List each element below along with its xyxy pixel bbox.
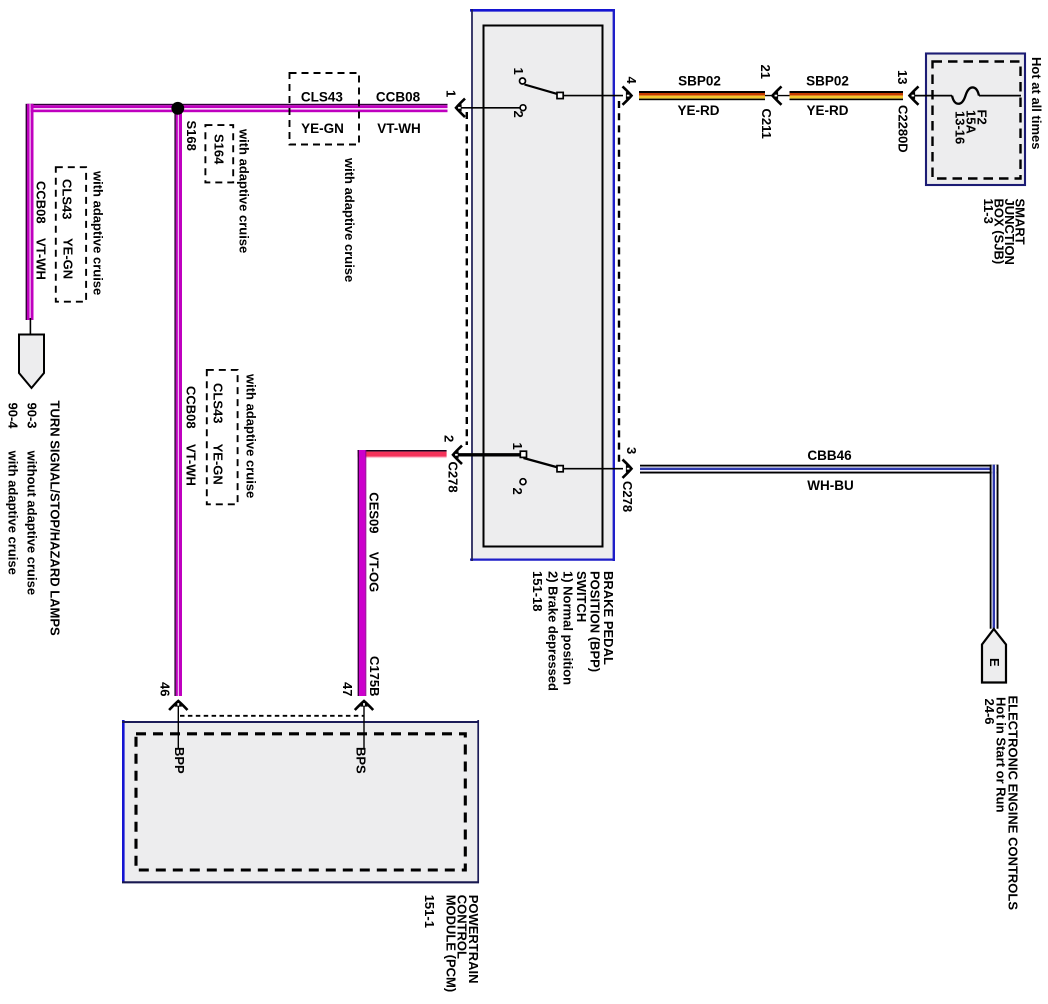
svg-text:BPS: BPS — [354, 747, 369, 774]
svg-text:90-3: 90-3 — [25, 403, 40, 429]
svg-text:WH-BU: WH-BU — [807, 478, 854, 493]
svg-text:CES09: CES09 — [367, 492, 382, 533]
svg-text:CCB08: CCB08 — [184, 386, 199, 429]
svg-text:VT-WH: VT-WH — [34, 238, 49, 280]
svg-text:CLS43: CLS43 — [211, 383, 226, 423]
svg-text:2: 2 — [511, 111, 526, 118]
svg-text:CLS43: CLS43 — [301, 89, 344, 104]
wire CBB46 WH-BU horizontal — [640, 465, 998, 474]
svg-text:SBP02: SBP02 — [678, 74, 721, 89]
wire CBB46 WH-BU vertical — [990, 465, 999, 629]
svg-text:151-1: 151-1 — [422, 895, 437, 928]
wire SBP02 YE-RD segment 1 — [639, 91, 765, 100]
wire from pivot to pin 3 — [564, 468, 624, 470]
svg-text:C2280D: C2280D — [896, 105, 911, 153]
wire CES09 vertical — [358, 450, 367, 696]
svg-text:without adaptive cruise: without adaptive cruise — [25, 450, 40, 595]
svg-text:2: 2 — [510, 488, 525, 495]
svg-text:VT-WH: VT-WH — [184, 444, 199, 486]
svg-text:2: 2 — [442, 435, 457, 442]
SJB inner dashed rectangle — [933, 62, 1021, 179]
wire CES09 horizontal top — [358, 450, 447, 458]
pivot square bottom — [557, 466, 563, 472]
pin 47 arrow — [355, 700, 373, 710]
connector dashed line right — [618, 101, 620, 465]
switch inner black rectangle — [484, 26, 603, 547]
svg-text:CCB08: CCB08 — [34, 181, 49, 224]
svg-text:1) Normal position: 1) Normal position — [561, 571, 576, 685]
svg-text:21: 21 — [758, 65, 773, 79]
wire from pin1 arrow to contact 2 — [459, 107, 520, 109]
brake pedal position switch box outline (blue) — [470, 9, 615, 561]
pin 46 arrow — [169, 700, 187, 710]
svg-text:C278: C278 — [446, 462, 461, 493]
svg-text:with adaptive cruise: with adaptive cruise — [91, 170, 106, 295]
thin wire through C211 gap — [765, 95, 790, 97]
dashed box CLS43/YE-GN left — [56, 167, 86, 302]
connector C211 arrow — [772, 86, 782, 104]
svg-text:47: 47 — [340, 682, 355, 696]
svg-text:E: E — [987, 658, 1002, 667]
svg-text:SBP02: SBP02 — [806, 74, 849, 89]
fuse F2 symbol — [952, 87, 979, 103]
svg-text:BPP: BPP — [172, 747, 187, 774]
svg-text:11-3: 11-3 — [981, 199, 996, 224]
svg-text:CCB08: CCB08 — [376, 89, 421, 104]
svg-text:MODULE (PCM): MODULE (PCM) — [443, 895, 458, 993]
svg-text:4: 4 — [624, 77, 639, 85]
pin 3 arrow right bottom — [623, 460, 633, 478]
dashed box CLS43/YE-GN mid — [207, 370, 238, 504]
svg-text:151-18: 151-18 — [530, 571, 545, 611]
svg-text:with adaptive cruise: with adaptive cruise — [6, 450, 21, 575]
svg-text:YE-RD: YE-RD — [677, 103, 719, 118]
switch lever bottom — [524, 458, 559, 468]
wire VT-WH vertical left drop — [26, 104, 34, 320]
svg-text:13: 13 — [895, 70, 910, 84]
wire SBP02 YE-RD segment 2 — [790, 91, 904, 100]
dashed box CLS43/YE-GN top — [290, 73, 360, 145]
svg-text:with adaptive cruise: with adaptive cruise — [342, 157, 357, 282]
svg-text:C211: C211 — [759, 109, 774, 139]
wire from pivot to pin 4 — [564, 95, 624, 97]
off-page connector E pentagon — [982, 629, 1006, 683]
smart junction box (blue) — [926, 54, 1025, 186]
svg-text:Hot at all times: Hot at all times — [1029, 57, 1044, 149]
wire CCB08 VT-WH horizontal — [27, 104, 447, 112]
svg-text:3: 3 — [624, 447, 639, 454]
stub wire to pentagon — [29, 318, 31, 335]
svg-text:VT-OG: VT-OG — [367, 552, 382, 592]
pin 46 stub — [177, 700, 179, 748]
svg-text:C278: C278 — [620, 481, 635, 512]
svg-text:46: 46 — [158, 682, 173, 696]
contact 1 circle — [520, 78, 526, 84]
svg-text:CLS43: CLS43 — [60, 179, 75, 219]
wire inside SJB — [914, 95, 952, 97]
contact 1 square bottom — [520, 451, 526, 457]
svg-text:with adaptive cruise: with adaptive cruise — [237, 128, 252, 253]
switch lever top — [525, 85, 559, 95]
svg-text:S164: S164 — [212, 134, 227, 165]
pivot square top — [557, 92, 563, 98]
thick wire from pin2 arrow to contact 1 — [453, 453, 520, 456]
svg-text:with adaptive cruise: with adaptive cruise — [244, 373, 259, 498]
svg-text:YE-RD: YE-RD — [806, 103, 848, 118]
contact 2 circle top — [520, 105, 526, 111]
svg-text:1: 1 — [444, 90, 459, 97]
svg-text:YE-GN: YE-GN — [61, 238, 76, 279]
svg-text:C175B: C175B — [367, 656, 382, 696]
svg-text:S168: S168 — [184, 121, 199, 151]
svg-text:YE-GN: YE-GN — [211, 444, 226, 485]
svg-text:13-16: 13-16 — [953, 111, 968, 144]
pin 47 stub — [363, 700, 365, 748]
svg-text:TURN SIGNAL/STOP/HAZARD LAMPS: TURN SIGNAL/STOP/HAZARD LAMPS — [48, 401, 63, 637]
svg-text:VT-WH: VT-WH — [377, 121, 421, 136]
svg-text:1: 1 — [511, 68, 526, 75]
splice S168 junction dot — [171, 102, 184, 115]
pin 2 arrow left bottom — [452, 446, 462, 464]
contact 2 circle bottom — [520, 479, 526, 485]
wire S168 branch vertical — [174, 104, 182, 696]
connector C175B dashed link line — [180, 715, 364, 717]
connector C278 dashed line left — [466, 112, 468, 445]
pin 1 arrow left — [455, 99, 465, 117]
dashed box S164 — [205, 125, 233, 182]
turn signal off-page pentagon — [19, 335, 44, 389]
svg-text:1: 1 — [510, 443, 525, 450]
svg-text:24-6: 24-6 — [982, 699, 997, 725]
svg-text:YE-GN: YE-GN — [301, 121, 344, 136]
pin 4 arrow at switch — [623, 86, 633, 104]
PCM inner dashed rectangle — [136, 734, 465, 870]
svg-text:90-4: 90-4 — [6, 403, 21, 430]
svg-text:2) Brake depressed: 2) Brake depressed — [546, 571, 561, 691]
svg-text:CBB46: CBB46 — [807, 448, 852, 463]
connector C2280D arrow — [909, 86, 919, 104]
powertrain control module box (blue) — [122, 720, 479, 883]
